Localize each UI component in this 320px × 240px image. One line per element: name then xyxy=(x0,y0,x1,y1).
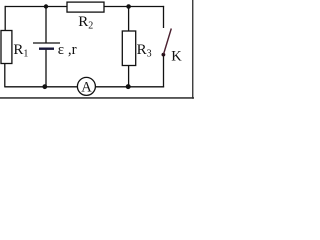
wire: bottom rail left segment xyxy=(5,86,78,88)
wire: right rail upper segment (to switch contact) xyxy=(163,6,165,28)
svg-text:R2: R2 xyxy=(78,14,93,32)
junction: battery branch / bottom rail xyxy=(42,84,47,89)
junction: R3 branch / bottom rail xyxy=(126,84,131,89)
svg-text:ε ,r: ε ,r xyxy=(58,42,77,58)
resistor R3 (box) xyxy=(122,31,135,66)
wire: bottom rail right segment xyxy=(95,86,164,88)
junction: R3 branch / top rail xyxy=(126,4,131,9)
svg-text:R3: R3 xyxy=(137,42,152,60)
wire: left rail lower segment xyxy=(4,63,6,87)
wire: battery branch upper segment xyxy=(45,7,47,44)
frame: image right border xyxy=(192,0,193,99)
resistor R1 (box) xyxy=(1,31,12,64)
wire: top rail left segment xyxy=(5,6,67,8)
switch K: pivot dot xyxy=(162,53,166,57)
svg-text:K: K xyxy=(171,49,182,65)
svg-text:A: A xyxy=(81,79,92,95)
battery cell: long positive plate xyxy=(33,42,60,44)
wire: R3 branch upper segment xyxy=(128,7,130,32)
wire: top rail right segment xyxy=(104,6,164,8)
resistor R2 (box) xyxy=(67,2,104,12)
ammeter A (circle) xyxy=(77,77,95,95)
junction: battery branch / top rail xyxy=(44,4,48,8)
wire: battery branch lower segment xyxy=(45,50,47,87)
wire: R3 branch lower segment xyxy=(128,66,130,87)
wire: right rail lower segment (from switch pivot) xyxy=(163,55,165,88)
svg-text:R1: R1 xyxy=(13,42,28,60)
battery cell: short thick negative plate xyxy=(39,48,54,50)
wire: left rail upper segment xyxy=(4,6,6,31)
frame: image bottom border xyxy=(0,97,194,99)
switch K: blade xyxy=(164,29,172,55)
